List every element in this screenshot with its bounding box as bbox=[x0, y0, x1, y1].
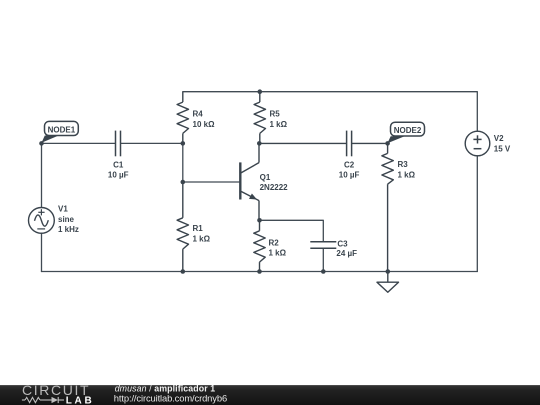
node emitter junction bbox=[257, 218, 262, 223]
label Q1 value bbox=[260, 173, 289, 192]
resistor R2 bbox=[254, 220, 265, 271]
wire C2 right to NODE2 bbox=[352, 142, 388, 144]
svg-text:R3: R3 bbox=[398, 160, 409, 169]
resistor R4 bbox=[177, 92, 188, 144]
wire top rail bbox=[183, 92, 478, 132]
node base tee junction bbox=[181, 180, 186, 185]
capacitor C2 bbox=[347, 131, 352, 157]
node ground junction bbox=[386, 269, 391, 274]
label C3 value bbox=[336, 240, 357, 259]
label R5 value bbox=[270, 110, 288, 129]
svg-text:NODE1: NODE1 bbox=[48, 125, 76, 134]
wire base bbox=[183, 181, 241, 183]
svg-text:C3: C3 bbox=[337, 240, 348, 249]
node R2 bottom junction bbox=[257, 269, 262, 274]
wire V1 to bottom rail bbox=[41, 233, 43, 271]
label R2 value bbox=[269, 238, 287, 257]
svg-text:1 kHz: 1 kHz bbox=[58, 225, 79, 234]
label V1 value bbox=[58, 205, 79, 235]
node C3 bottom junction bbox=[321, 269, 326, 274]
svg-text:15 V: 15 V bbox=[494, 144, 511, 153]
node NODE1 junction bbox=[39, 141, 44, 146]
capacitor C3 bbox=[310, 242, 336, 249]
node NODE2 flag bbox=[387, 122, 424, 143]
svg-text:Q1: Q1 bbox=[260, 173, 271, 182]
capacitor C1 bbox=[116, 131, 121, 157]
svg-text:2N2222: 2N2222 bbox=[260, 183, 289, 192]
svg-text:10 kΩ: 10 kΩ bbox=[193, 120, 216, 129]
source V1 bbox=[29, 208, 55, 234]
node NODE2 junction bbox=[385, 141, 390, 146]
label C1 value bbox=[108, 160, 129, 179]
node collector junction bbox=[257, 141, 262, 146]
svg-text:10 µF: 10 µF bbox=[108, 170, 129, 179]
svg-text:1 kΩ: 1 kΩ bbox=[270, 120, 288, 129]
svg-text:V2: V2 bbox=[494, 134, 504, 143]
svg-text:C1: C1 bbox=[113, 160, 124, 169]
wire NODE1 to C1 bbox=[42, 142, 116, 144]
svg-text:1 kΩ: 1 kΩ bbox=[193, 234, 211, 243]
wire bottom rail bbox=[42, 271, 478, 273]
wire NODE1 down to V1 bbox=[41, 143, 43, 207]
label R4 value bbox=[193, 110, 216, 129]
svg-text:1 kΩ: 1 kΩ bbox=[269, 249, 287, 258]
node R4-C1 junction bbox=[181, 141, 186, 146]
svg-text:R1: R1 bbox=[193, 224, 204, 233]
svg-text:24 µF: 24 µF bbox=[336, 249, 357, 258]
svg-text:V1: V1 bbox=[58, 205, 68, 214]
svg-text:http://circuitlab.com/crdnyb6: http://circuitlab.com/crdnyb6 bbox=[114, 392, 227, 403]
svg-text:10 µF: 10 µF bbox=[339, 170, 360, 179]
svg-text:LAB: LAB bbox=[66, 395, 92, 405]
resistor R1 bbox=[177, 182, 188, 272]
ground bbox=[377, 272, 399, 293]
node R5 top junction bbox=[258, 89, 263, 94]
resistor R3 bbox=[382, 143, 393, 271]
label R1 value bbox=[193, 224, 211, 243]
source V2 bbox=[465, 131, 490, 156]
label V2 value bbox=[494, 134, 511, 153]
svg-text:R4: R4 bbox=[193, 110, 204, 119]
wire C2 left bbox=[259, 142, 347, 144]
node NODE1 flag bbox=[42, 121, 79, 142]
wire V2 bottom to rail bbox=[476, 156, 478, 272]
svg-text:sine: sine bbox=[58, 215, 75, 224]
label C2 value bbox=[339, 160, 360, 179]
svg-text:C2: C2 bbox=[344, 160, 355, 169]
wire emitter node to C3 bbox=[260, 220, 324, 242]
svg-text:R2: R2 bbox=[269, 238, 280, 247]
transistor Q1 bbox=[240, 143, 259, 220]
svg-text:1 kΩ: 1 kΩ bbox=[398, 170, 416, 179]
wire R4-bottom node down to base tee bbox=[182, 143, 184, 182]
label R3 value bbox=[398, 160, 416, 179]
node R1 bottom junction bbox=[181, 269, 186, 274]
wire C3 bottom to rail bbox=[322, 248, 324, 271]
svg-text:R5: R5 bbox=[270, 110, 281, 119]
logo schematic squiggle bbox=[22, 397, 64, 403]
footer bar bbox=[0, 385, 540, 405]
wire C1 to R4-bottom node bbox=[121, 142, 183, 144]
svg-text:NODE2: NODE2 bbox=[394, 126, 422, 135]
resistor R5 bbox=[254, 92, 265, 144]
